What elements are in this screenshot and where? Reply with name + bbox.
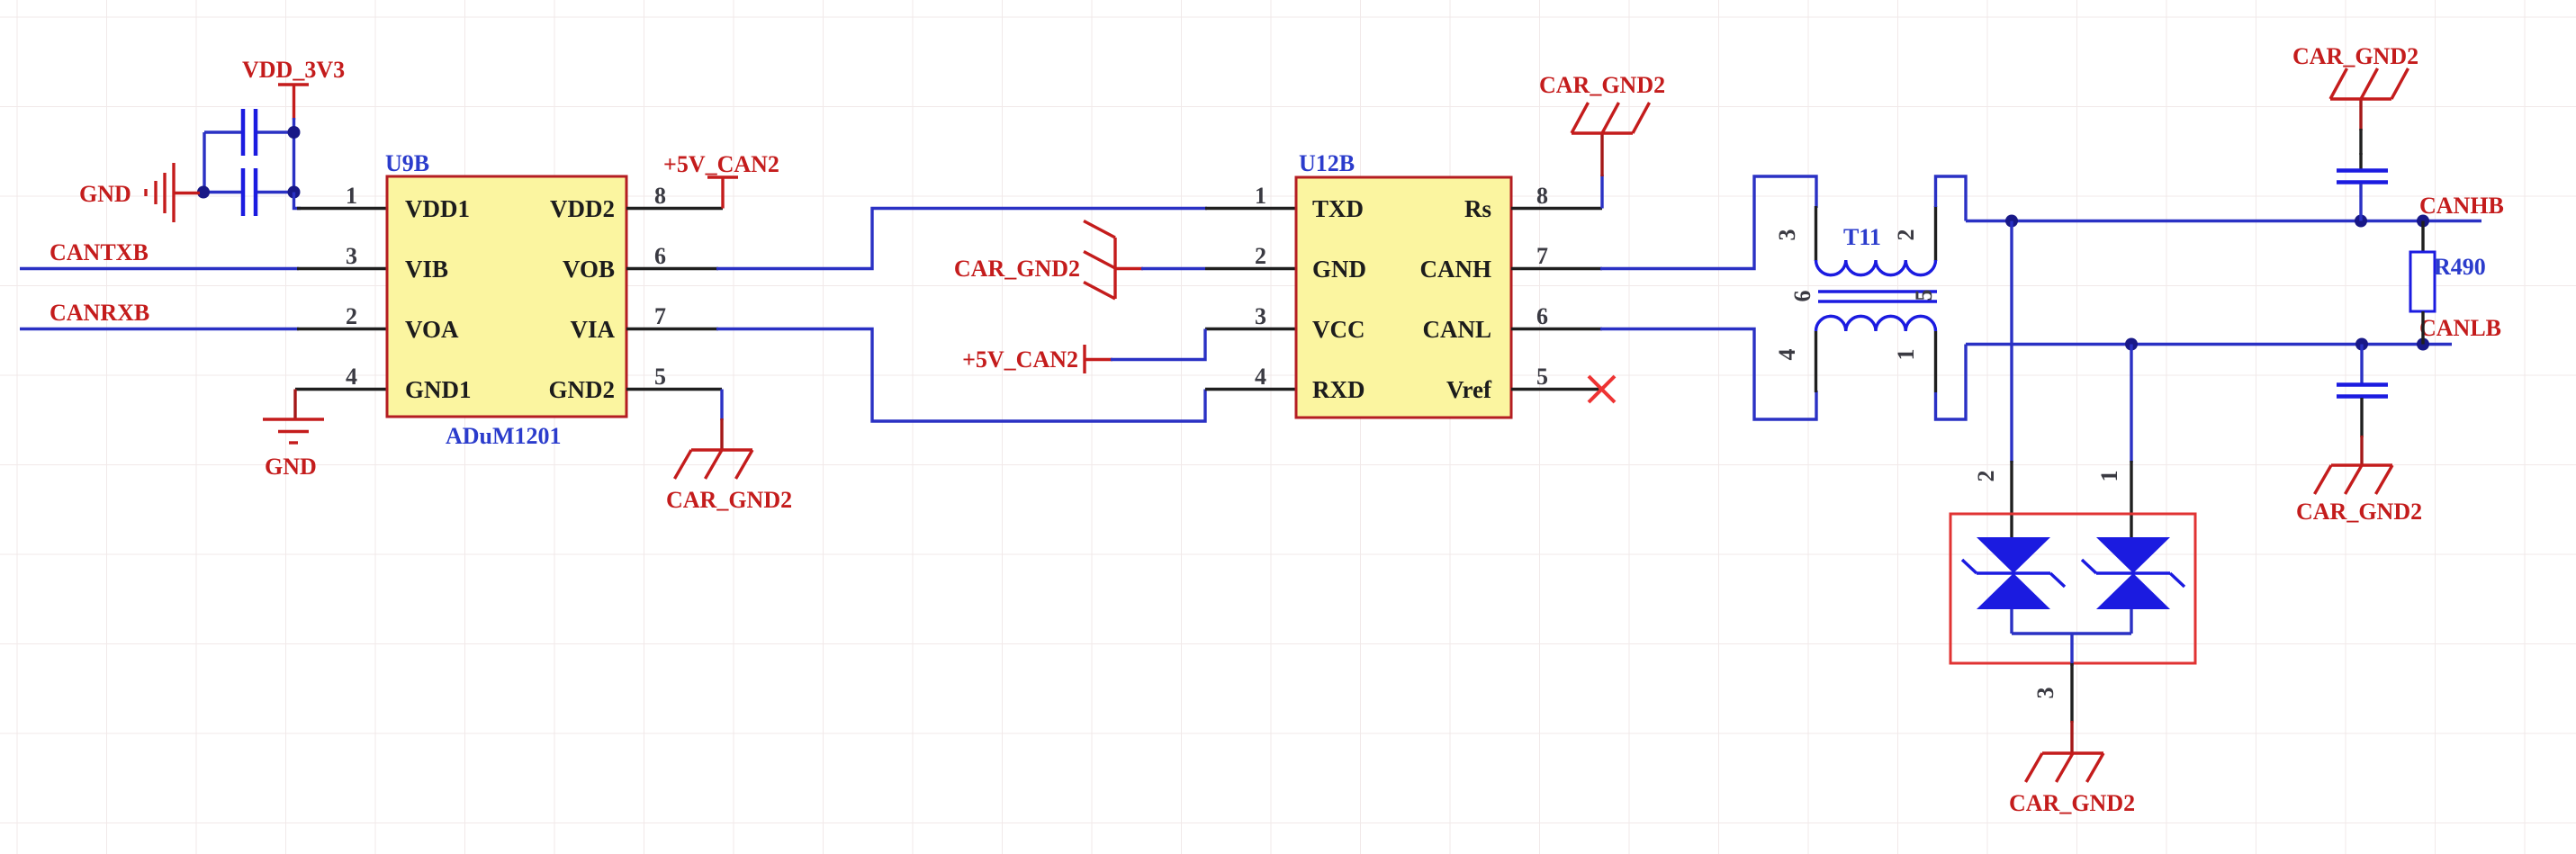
svg-text:R490: R490 bbox=[2434, 254, 2486, 280]
wire CANL to T11 pin 4 bbox=[1600, 329, 1816, 420]
svg-text:VIB: VIB bbox=[405, 256, 448, 283]
pin 1 wire U9B VDD1 bbox=[297, 207, 387, 210]
svg-text:2: 2 bbox=[1255, 243, 1266, 269]
svg-text:6: 6 bbox=[1536, 303, 1548, 329]
transceiver U12B body bbox=[1296, 177, 1511, 418]
earth ground CAR_GND2 (below U9B pin 5) bbox=[666, 418, 792, 513]
svg-text:3: 3 bbox=[2032, 688, 2058, 699]
svg-text:8: 8 bbox=[654, 183, 666, 209]
svg-text:CANRXB: CANRXB bbox=[50, 300, 149, 326]
junction node CANL at R490 bbox=[2417, 338, 2429, 351]
wire CANRXB bbox=[20, 328, 299, 330]
svg-text:VCC: VCC bbox=[1312, 316, 1365, 343]
wire CANH to T11 pin 3 bbox=[1600, 176, 1816, 269]
svg-text:4: 4 bbox=[1255, 364, 1266, 390]
pin 3 of T11 bbox=[1815, 206, 1817, 261]
svg-text:Vref: Vref bbox=[1446, 376, 1492, 403]
svg-text:CANL: CANL bbox=[1422, 316, 1491, 343]
pin 4 of T11 bbox=[1815, 331, 1817, 392]
wire T11 pin 2 to CANHB rail bbox=[1936, 176, 1967, 221]
pin 4 wire U12B RXD bbox=[1205, 388, 1296, 391]
svg-text:5: 5 bbox=[654, 364, 666, 390]
junction node VDD top bbox=[288, 126, 301, 139]
junction node CANH at R490 bbox=[2417, 215, 2429, 228]
svg-text:GND2: GND2 bbox=[549, 376, 616, 403]
pin 3 wire U9B VIB bbox=[297, 267, 387, 270]
junction node VDD bottom bbox=[288, 186, 301, 199]
op-amp U9B body (ADuM1201 isolator) bbox=[387, 176, 626, 417]
wire pin5 down bbox=[720, 390, 723, 421]
resistor R490 bbox=[2410, 221, 2486, 345]
pin 8 wire U9B VDD2 bbox=[626, 207, 723, 210]
pin 8 wire U12B Rs bbox=[1511, 207, 1602, 210]
svg-text:VDD2: VDD2 bbox=[550, 195, 615, 222]
pin 2 wire TVS bbox=[2010, 461, 2013, 539]
svg-text:5: 5 bbox=[1536, 364, 1548, 390]
svg-text:CANHB: CANHB bbox=[2419, 193, 2504, 219]
wire T11 pin 1 to CANLB rail bbox=[1936, 345, 1967, 420]
svg-text:1: 1 bbox=[2096, 471, 2122, 482]
svg-text:U9B: U9B bbox=[385, 150, 429, 176]
TVS array body box bbox=[1950, 514, 2195, 663]
svg-text:RXD: RXD bbox=[1312, 376, 1365, 403]
svg-text:VOB: VOB bbox=[563, 256, 615, 283]
svg-text:CAR_GND2: CAR_GND2 bbox=[2292, 43, 2418, 69]
earth ground CAR_GND2 (top right) bbox=[2292, 43, 2418, 155]
junction node CANH at cap bbox=[2355, 215, 2367, 228]
wire CANTXB bbox=[20, 267, 299, 270]
earth ground CAR_GND2 (at U12B pin 2, rotated) bbox=[954, 221, 1205, 300]
power port +5V_CAN2 (middle, at U12B pin 3) bbox=[962, 329, 1205, 374]
wire VOB to TXD bbox=[716, 209, 1207, 269]
svg-text:T11: T11 bbox=[1843, 224, 1881, 250]
svg-text:Rs: Rs bbox=[1464, 195, 1491, 222]
pin 3 wire TVS bbox=[2070, 663, 2073, 723]
wire CANL down to TVS bbox=[2130, 345, 2132, 463]
svg-text:CAR_GND2: CAR_GND2 bbox=[2009, 790, 2135, 816]
pin 2 wire U12B GND bbox=[1205, 267, 1296, 270]
svg-text:7: 7 bbox=[1536, 243, 1548, 269]
svg-text:1: 1 bbox=[1893, 349, 1919, 361]
svg-text:VDD1: VDD1 bbox=[405, 195, 470, 222]
svg-text:1: 1 bbox=[1255, 183, 1266, 209]
pin 1 of T11 bbox=[1934, 331, 1937, 392]
earth ground CAR_GND2 (bottom right) bbox=[2296, 436, 2422, 525]
svg-text:GND1: GND1 bbox=[405, 376, 472, 403]
pin 2 of T11 bbox=[1934, 206, 1937, 261]
capacitor C bottom (decoupling) bbox=[204, 168, 294, 216]
svg-text:4: 4 bbox=[346, 364, 357, 390]
junction node CANL at TVS bbox=[2125, 338, 2138, 351]
svg-text:GND: GND bbox=[79, 181, 131, 207]
svg-text:5: 5 bbox=[1911, 290, 1937, 301]
winding primary (top) bbox=[1816, 260, 1936, 275]
pin 6 wire U9B VOB bbox=[626, 267, 718, 270]
wire CANLB rail bbox=[1966, 343, 2452, 346]
svg-text:CANLB: CANLB bbox=[2419, 315, 2501, 341]
wire CANH down to TVS bbox=[2010, 221, 2013, 463]
svg-text:+5V_CAN2: +5V_CAN2 bbox=[962, 346, 1078, 373]
earth ground CAR_GND2 (above U12B pin 8) bbox=[1539, 72, 1665, 176]
svg-text:U12B: U12B bbox=[1299, 150, 1355, 176]
TVS diode D left (bidirectional) bbox=[1962, 537, 2065, 609]
svg-text:CANH: CANH bbox=[1420, 256, 1492, 283]
pin 1 wire TVS bbox=[2130, 461, 2132, 539]
svg-text:3: 3 bbox=[346, 243, 357, 269]
wire VDD rail vertical bbox=[293, 132, 295, 193]
svg-text:CAR_GND2: CAR_GND2 bbox=[666, 487, 792, 513]
wire Rs up bbox=[1600, 175, 1603, 209]
svg-text:7: 7 bbox=[654, 303, 666, 329]
svg-text:CANTXB: CANTXB bbox=[50, 239, 149, 265]
svg-text:VIA: VIA bbox=[570, 316, 615, 343]
svg-text:CAR_GND2: CAR_GND2 bbox=[1539, 72, 1665, 98]
svg-text:+5V_CAN2: +5V_CAN2 bbox=[663, 151, 779, 177]
wire CANHB rail bbox=[1966, 220, 2481, 222]
svg-text:2: 2 bbox=[1893, 229, 1919, 241]
svg-text:VOA: VOA bbox=[405, 316, 459, 343]
pin 2 wire U9B VOA bbox=[297, 328, 387, 330]
svg-text:2: 2 bbox=[346, 303, 357, 329]
no-connect X at Vref bbox=[1589, 376, 1615, 402]
capacitor C top (decoupling) bbox=[204, 109, 294, 156]
svg-text:VDD_3V3: VDD_3V3 bbox=[242, 57, 345, 83]
pin 4 wire U9B GND1 bbox=[295, 388, 387, 391]
wire cap loop left vertical bbox=[203, 132, 205, 193]
svg-text:GND: GND bbox=[265, 454, 317, 480]
svg-text:3: 3 bbox=[1774, 229, 1800, 241]
pin 6 wire U12B CANL bbox=[1511, 328, 1602, 330]
svg-text:CAR_GND2: CAR_GND2 bbox=[2296, 499, 2422, 525]
capacitor top right bbox=[2337, 153, 2388, 221]
svg-text:GND: GND bbox=[1312, 256, 1366, 283]
svg-text:CAR_GND2: CAR_GND2 bbox=[954, 256, 1080, 282]
power port +5V_CAN2 (top) bbox=[663, 151, 779, 209]
power ground GND (below pin 4) bbox=[263, 390, 324, 481]
svg-text:1: 1 bbox=[346, 183, 357, 209]
junction node CANL at cap bbox=[2355, 338, 2368, 351]
pin 5 wire U9B GND2 bbox=[626, 388, 722, 391]
pin 7 wire U12B CANH bbox=[1511, 267, 1602, 270]
wire TVS common (U shape) bbox=[2012, 609, 2131, 666]
power port VDD_3V3 bbox=[242, 57, 345, 120]
svg-text:TXD: TXD bbox=[1312, 195, 1364, 222]
winding secondary (bottom) bbox=[1816, 316, 1936, 331]
wire VIA to RXD bbox=[716, 329, 1205, 422]
svg-text:8: 8 bbox=[1536, 183, 1548, 209]
pin 7 wire U9B VIA bbox=[626, 328, 718, 330]
svg-text:4: 4 bbox=[1774, 349, 1800, 361]
TVS diode D right (bidirectional) bbox=[2082, 537, 2184, 609]
svg-text:2: 2 bbox=[1973, 471, 1999, 482]
pin 1 wire U12B TXD bbox=[1205, 207, 1296, 210]
svg-text:3: 3 bbox=[1255, 303, 1266, 329]
earth ground CAR_GND2 (below TVS) bbox=[2009, 721, 2135, 816]
junction node CANH at TVS bbox=[2005, 215, 2018, 228]
transformer T11 common-mode choke bbox=[1774, 206, 1937, 392]
svg-text:ADuM1201: ADuM1201 bbox=[446, 423, 562, 449]
pin 5 wire U12B Vref bbox=[1511, 388, 1601, 391]
svg-text:6: 6 bbox=[1789, 291, 1815, 302]
wire VDD_3V3 stem to cap rail bbox=[293, 118, 295, 132]
junction node GND rail bbox=[197, 186, 210, 199]
wire junction to U9B pin1 bbox=[294, 193, 302, 209]
capacitor bottom right bbox=[2337, 345, 2388, 438]
power ground GND (left, rotated bars) bbox=[79, 163, 200, 222]
core lines bbox=[1818, 290, 1937, 292]
pin 3 wire U12B VCC bbox=[1205, 328, 1296, 330]
svg-text:6: 6 bbox=[654, 243, 666, 269]
